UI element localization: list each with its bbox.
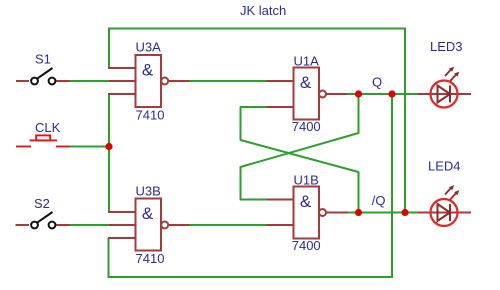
pushbutton CLK: [16, 135, 70, 146]
U1A output bubble: [319, 91, 326, 98]
wire U3A output to U1A pin1: [189, 80, 267, 82]
svg-text:Q: Q: [372, 75, 382, 90]
wire cross-couple /Q to U1A pin2: [241, 107, 359, 213]
svg-text:7410: 7410: [136, 108, 165, 123]
svg-text:&: &: [300, 73, 312, 92]
nand gate U1A: [267, 54, 349, 135]
wire bottom-left vertical from U3B pin3: [108, 238, 110, 278]
wire U3B output to U1B pin2: [189, 224, 267, 226]
U3B pin 1: [108, 211, 136, 213]
svg-text:U1B: U1B: [294, 173, 319, 188]
svg-text:&: &: [142, 204, 154, 223]
svg-text:S2: S2: [34, 196, 50, 211]
junction Q node 1: [355, 90, 362, 97]
svg-text:7400: 7400: [292, 119, 321, 134]
junction /Q node 1: [355, 209, 362, 216]
wire Q feedback bottom horizontal: [109, 276, 393, 278]
U1B output lead: [326, 212, 348, 214]
svg-text:LED4: LED4: [428, 159, 461, 174]
wire CLK junction up to U3A pin3: [108, 94, 110, 147]
wire cross-couple Q to U1B pin1: [241, 94, 359, 200]
wire Q row: [347, 93, 418, 95]
LED3: [418, 39, 471, 108]
U3A pin 1: [108, 67, 136, 69]
svg-text:7410: 7410: [136, 251, 165, 266]
U1B pin 1: [267, 199, 294, 201]
U3A output lead: [168, 80, 189, 82]
junction /Q node 2: [401, 209, 408, 216]
wire top-right vertical to /Q node: [404, 28, 406, 213]
U1B pin 2: [267, 224, 294, 226]
nand gate U1B: [267, 173, 349, 254]
svg-text:U1A: U1A: [294, 54, 320, 69]
switch S2: [16, 224, 71, 226]
svg-text:CLK: CLK: [35, 120, 61, 135]
switch S1: [16, 80, 70, 82]
nand gate U3A: [108, 40, 189, 123]
svg-text:&: &: [142, 61, 154, 80]
junction Q node 2: [388, 90, 395, 97]
U1A pin 1: [267, 80, 294, 82]
U1B output bubble: [319, 209, 326, 216]
U3B pin 3: [108, 237, 136, 239]
LED4: [418, 159, 471, 227]
wire CLK to junction: [70, 146, 109, 148]
wire /Q row: [347, 212, 418, 214]
svg-text:7400: 7400: [292, 238, 321, 253]
svg-text:U3A: U3A: [136, 40, 162, 55]
wire S2 to U3B pin2: [70, 224, 110, 226]
U3B output lead: [168, 224, 189, 226]
wire /Q feedback top horizontal: [109, 28, 405, 30]
U3A output bubble: [161, 78, 168, 85]
nand gate U3B: [108, 184, 189, 267]
wire bottom-right vertical to Q node: [391, 94, 393, 278]
wire S1 to U3A pin2: [70, 80, 110, 82]
U3A pin 2: [109, 80, 136, 82]
svg-text:LED3: LED3: [430, 39, 463, 54]
wire CLK junction down to U3B pin1: [108, 146, 110, 212]
svg-text:U3B: U3B: [136, 184, 161, 199]
svg-text:&: &: [300, 192, 312, 211]
wire top-left vertical to U3A pin1: [108, 28, 110, 69]
U1A output lead: [326, 93, 348, 95]
svg-text:JK latch: JK latch: [240, 3, 286, 18]
U3A pin 3: [108, 93, 136, 95]
svg-text:/Q: /Q: [372, 193, 386, 208]
svg-text:S1: S1: [35, 52, 51, 67]
junction CLK node: [105, 143, 112, 150]
U3B pin 2: [109, 224, 136, 226]
U3B output bubble: [161, 222, 168, 229]
U1A pin 2: [267, 106, 294, 108]
